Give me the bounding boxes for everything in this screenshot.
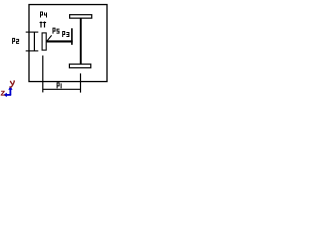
plate [42,33,46,50]
dimension P1 extension right [80,73,82,92]
dimension P1 extension left [42,56,44,93]
dimension P1 line [43,88,81,90]
label P3 [62,31,69,37]
frame [29,5,107,82]
dimension P2 line [33,32,35,51]
dimension P2 top tick [26,31,39,33]
axis label y [10,81,15,87]
dimension P4 arrow left [40,22,42,28]
weld line [47,40,73,42]
node line P3 [71,28,73,45]
axis label z [1,91,5,96]
leader P5 [47,35,52,41]
dimension P4 arrow right [44,22,46,28]
label P5 [53,28,60,34]
top flange [70,15,92,18]
bottom flange [69,64,90,68]
web [80,18,82,64]
dimension P2 bottom tick [26,50,39,52]
axis arrow z [3,93,11,97]
label P1 [57,82,62,88]
label P2 [12,38,19,44]
label P4 [40,12,47,18]
axis arrow y [8,86,12,95]
